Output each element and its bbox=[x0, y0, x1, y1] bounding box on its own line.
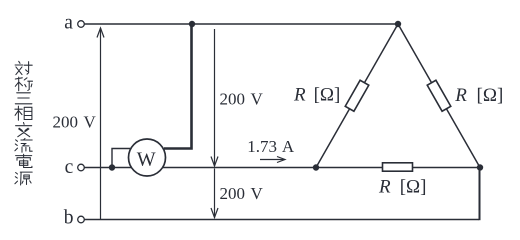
svg-text:[Ω]: [Ω] bbox=[400, 177, 427, 198]
resistor R2 (delta right diagonal) bbox=[427, 80, 451, 111]
svg-text:1.73 A: 1.73 A bbox=[247, 137, 295, 156]
terminal c bbox=[78, 164, 85, 171]
current arrow 1.73 A bbox=[260, 157, 285, 163]
wire delta right diagonal bbox=[398, 24, 480, 168]
kanji kou bbox=[16, 123, 32, 137]
kanji sou bbox=[15, 106, 32, 120]
kanji gen bbox=[15, 172, 32, 185]
kanji shou bbox=[15, 77, 32, 91]
wire delta left diagonal bbox=[316, 24, 398, 168]
junction dot on a-line (wattmeter lead) bbox=[189, 21, 195, 27]
wire c-line bbox=[85, 167, 481, 169]
svg-text:R: R bbox=[454, 85, 467, 106]
svg-text:200 V: 200 V bbox=[220, 90, 264, 109]
dimension arrow bottom 200V (down to b) bbox=[211, 169, 218, 218]
kanji den bbox=[16, 154, 32, 167]
kanji san bbox=[15, 93, 32, 104]
svg-text:R: R bbox=[293, 84, 306, 105]
node delta bottom-left bbox=[313, 164, 319, 170]
svg-text:200 V: 200 V bbox=[53, 113, 97, 132]
dimension arrow middle 200V (down to c) bbox=[211, 29, 218, 166]
wire a-line bbox=[85, 23, 399, 25]
svg-text:b: b bbox=[64, 207, 74, 228]
junction dot on c-line (wattmeter) bbox=[109, 164, 115, 170]
resistor R3 (delta bottom) bbox=[383, 163, 413, 171]
wire wattmeter left bend bbox=[112, 149, 130, 168]
terminal a bbox=[78, 21, 85, 28]
svg-text:R: R bbox=[378, 177, 391, 198]
svg-text:c: c bbox=[65, 157, 74, 178]
svg-text:200 V: 200 V bbox=[220, 184, 264, 203]
svg-text:W: W bbox=[137, 148, 156, 170]
wire wattmeter voltage lead to a-line bbox=[164, 24, 192, 149]
svg-text:[Ω]: [Ω] bbox=[477, 85, 504, 106]
wattmeter U1 circle bbox=[129, 139, 166, 176]
node delta apex bbox=[395, 21, 401, 27]
dimension arrow left 200V (up) bbox=[97, 28, 104, 219]
label vertical kanji: taishou sansou kouryuu dengen bbox=[15, 61, 33, 185]
node delta bottom-right bbox=[477, 164, 483, 170]
svg-text:[Ω]: [Ω] bbox=[314, 84, 341, 105]
wire b-line bbox=[85, 219, 480, 221]
resistor R1 (delta left diagonal) bbox=[345, 80, 369, 111]
kanji tai bbox=[15, 61, 32, 74]
svg-text:a: a bbox=[64, 13, 73, 34]
kanji ryuu bbox=[15, 139, 32, 153]
terminal b bbox=[78, 216, 85, 223]
wire right vertical b-to-delta bbox=[479, 168, 481, 221]
